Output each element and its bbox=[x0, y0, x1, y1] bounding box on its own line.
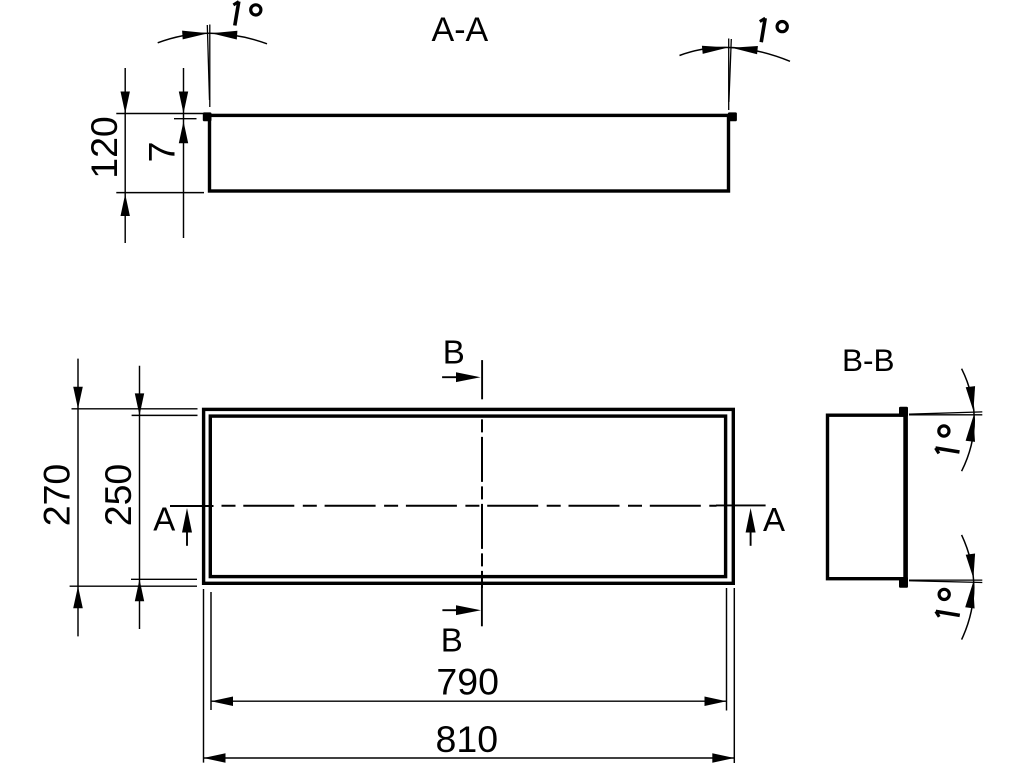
svg-text:270: 270 bbox=[36, 464, 78, 527]
svg-text:B: B bbox=[441, 622, 463, 659]
svg-text:B-B: B-B bbox=[842, 342, 895, 378]
svg-text:7: 7 bbox=[141, 142, 183, 163]
svg-text:A: A bbox=[153, 500, 175, 537]
svg-text:250: 250 bbox=[97, 464, 139, 527]
svg-text:B: B bbox=[443, 333, 465, 370]
svg-text:A-A: A-A bbox=[432, 11, 489, 49]
svg-text:A: A bbox=[763, 501, 785, 538]
svg-text:790: 790 bbox=[436, 661, 499, 703]
svg-text:120: 120 bbox=[83, 116, 125, 179]
svg-text:810: 810 bbox=[436, 718, 499, 760]
